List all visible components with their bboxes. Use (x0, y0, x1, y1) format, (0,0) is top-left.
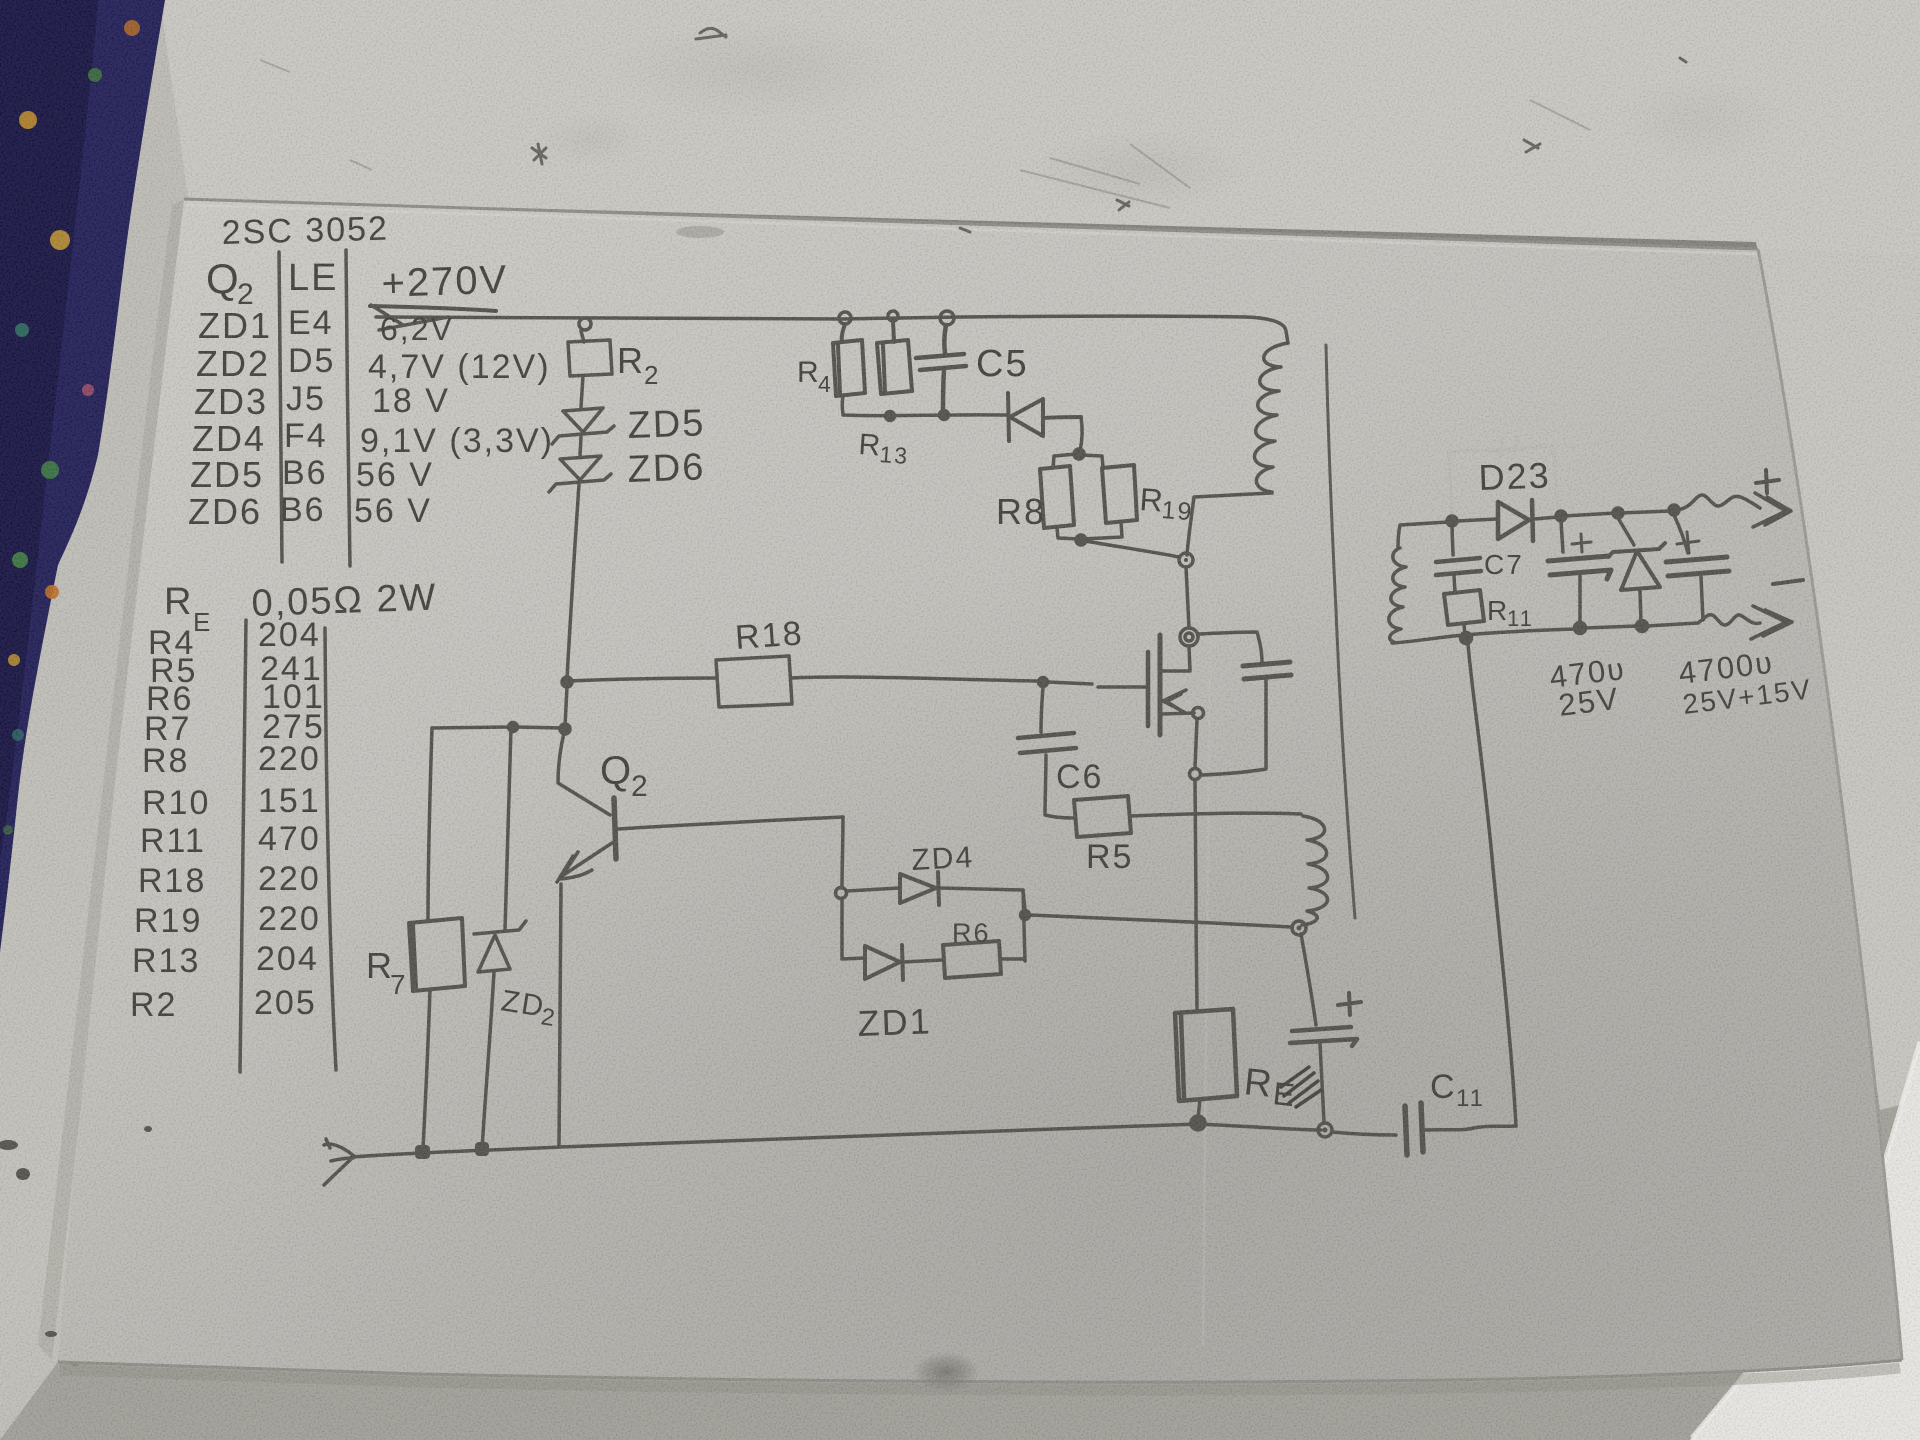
wire source node down to RE (1195, 780, 1197, 1012)
resistor R19 (1102, 465, 1137, 523)
capacitor C11 plates (1405, 1103, 1423, 1155)
resistor R4 (833, 324, 865, 396)
wire output plus squiggle (1677, 495, 1760, 510)
wire 470u cap lead (1561, 521, 1563, 552)
electrolytic capacitor plates (1290, 1027, 1357, 1046)
wire node A to R18 (567, 678, 716, 681)
output plus sign (1756, 470, 1779, 493)
wire to R7 branch corner (432, 727, 509, 728)
node output rail 2 (1613, 508, 1623, 518)
capacitor C5 (916, 325, 966, 412)
wire R19 bottom to node (1083, 522, 1122, 539)
wire Q2 collector from node B (558, 733, 610, 815)
wire snubber top (1198, 632, 1262, 662)
junction R13 bottom (886, 412, 895, 421)
wire right side of diode loop (1023, 890, 1025, 961)
transistor Q2 base bar (614, 798, 616, 859)
zener ZD5 (552, 408, 614, 456)
wire ZD2 top lead (505, 728, 511, 930)
MOSFET gate bar (1146, 652, 1151, 726)
wire C7 to R11 (1454, 576, 1455, 592)
zener ZD4 (900, 872, 939, 905)
wire R11 bottom lead (1464, 625, 1465, 634)
resistor RE (1175, 1009, 1237, 1101)
wire rail bend into primary winding (1246, 317, 1288, 343)
wire gate node to MOSFET gate (1047, 682, 1146, 687)
node top of R8 R19 (1074, 449, 1084, 459)
wire diode to R8 R19 top node (1080, 417, 1082, 451)
wire into R19 top (1081, 455, 1103, 467)
wire 470u cap bottom lead (1578, 576, 1582, 624)
wire to D23 anode (1457, 519, 1497, 521)
wire diode loop node to aux winding node (1030, 915, 1291, 927)
diode D (cathode left) (1008, 393, 1081, 441)
node on rail for R2 (579, 318, 591, 330)
wire node B left to ZD2 branch (515, 727, 565, 728)
table column bar right of LE (346, 250, 350, 566)
wire output rail segment 2 (1621, 511, 1671, 513)
wire down branch from ZD4 node (840, 898, 844, 957)
wire secondary bottom rail (1392, 629, 1576, 643)
node ZD4 branch (small circle) (836, 888, 847, 899)
wire R18 to gate node (791, 677, 1040, 681)
node gate junction (1039, 678, 1048, 687)
wire rail node to C11 (1332, 1132, 1396, 1135)
wire snubber bottom (1202, 680, 1266, 775)
output minus arrow head (1751, 606, 1792, 639)
resistor R18 (716, 656, 792, 707)
node diode loop junction (1021, 911, 1030, 920)
erased capacitor outline (faint) (1449, 437, 1558, 516)
input terminal arrow bottom left (324, 1139, 354, 1185)
resistor R7 (409, 918, 465, 991)
wire node to drain node (1085, 541, 1179, 557)
wire zener bottom lead (1640, 591, 1641, 622)
wire C6 lead from gate node (1041, 687, 1043, 732)
diode D23 (1498, 500, 1533, 541)
wire output minus squiggle (1698, 615, 1760, 625)
node on rail for R4 (839, 312, 851, 324)
node on rail for R13 (888, 311, 898, 321)
wire output rail segment (1564, 513, 1615, 516)
node bottom of R8 R19 (1076, 535, 1086, 545)
wire R8 bottom to node (1057, 528, 1079, 539)
wire RE bottom lead (1198, 1099, 1200, 1119)
junction RE to rail (1191, 1116, 1205, 1130)
wire ZD4 to right corner (939, 888, 1025, 910)
R list column bar right (325, 628, 336, 1070)
node MOSFET drain (big double circle) (1180, 628, 1198, 646)
resistor R2 (568, 331, 612, 407)
junction ZD2 to rail (475, 1142, 489, 1156)
wire bottom rail segment (1585, 626, 1637, 628)
diode ZD1 (865, 945, 903, 980)
wire Q2 base corner down to ZD4 node (842, 817, 843, 888)
capacitor 470u plates (1548, 556, 1611, 579)
wire R7 bottom lead (423, 989, 430, 1149)
junction C5 bottom (940, 411, 949, 420)
zener diode output (1608, 543, 1665, 590)
capacitor across MOSFET plates (1243, 662, 1291, 679)
node drain top (double circle) (1179, 553, 1193, 567)
capacitor 4700u plates (1666, 557, 1729, 576)
wire +270V top rail (371, 305, 1246, 325)
wire ZD6 to node A (567, 484, 579, 680)
zener diode output lead (1618, 518, 1634, 545)
table column bar between Q2 and LE (279, 252, 282, 562)
wire bottom rail (352, 1124, 1321, 1157)
wire bottom bus of R4 R13 C5 (843, 413, 1006, 417)
transformer core line (1326, 345, 1355, 918)
wire cap to rail node (1320, 1044, 1324, 1122)
470u cap plus sign (1572, 534, 1591, 552)
zener ZD6 (549, 456, 611, 492)
node ZD2 branch junction (509, 723, 518, 732)
node cap to rail (double circle) (1318, 1123, 1332, 1137)
resistor R11 (1444, 590, 1484, 625)
wire C6 to R5 (1045, 755, 1073, 818)
resistor R8 (1040, 466, 1074, 528)
resistor R6 (943, 941, 1001, 978)
node A junction (562, 677, 572, 687)
wire to ZD1 (842, 958, 864, 959)
wire node A down to node B (565, 687, 567, 726)
wire Q2 base to right (618, 817, 843, 829)
MOSFET channel bar (1158, 635, 1163, 735)
strike-through on 6,2V value (379, 317, 448, 330)
wire C7 lead from node (1452, 527, 1453, 555)
node source-cap junction (1190, 769, 1201, 780)
resistor R13 (877, 321, 912, 394)
wire Q2 emitter down to bottom rail (559, 884, 561, 1145)
wire aux node down to electrolytic cap (1301, 934, 1316, 1025)
wire R4 bottom lead (841, 396, 845, 414)
zener ZD2 (474, 921, 526, 972)
junction R11 to secondary bottom (1461, 633, 1472, 644)
wire 4700u bottom lead (1701, 577, 1703, 620)
output minus sign dash (1773, 580, 1803, 584)
node secondary top junction (1447, 516, 1457, 526)
resistor R5 (1074, 796, 1131, 837)
wire R6 to loop corner (1001, 957, 1024, 961)
MOSFET drain lead (1162, 646, 1190, 671)
primary winding of transformer (1254, 343, 1288, 492)
capacitor C6 plates (1018, 733, 1076, 753)
junction R7 to rail (415, 1145, 430, 1159)
transistor Q2 emitter with arrow (557, 843, 612, 882)
wire ZD1 to R6 (903, 960, 942, 962)
wire R5 to aux winding (1130, 813, 1301, 816)
wire C11 right to corner (1424, 1126, 1516, 1130)
output plus arrow head (1753, 493, 1791, 527)
aux winding of transformer (1302, 816, 1328, 925)
MOSFET body arrow (1163, 690, 1186, 713)
node output rail 1 (1556, 511, 1566, 521)
MOSFET source lead (1162, 713, 1194, 714)
R list column bar left (240, 620, 246, 1072)
wire source down (1195, 719, 1197, 768)
junction zener to bottom rail (1637, 621, 1648, 632)
electrolytic capacitor plus sign (1338, 993, 1361, 1015)
capacitor C7 plates (1436, 558, 1481, 575)
node on rail for C5 (940, 311, 954, 325)
node MOSFET source (1193, 708, 1204, 719)
wire D23 cathode to output node (1534, 517, 1558, 519)
wire to ZD4 (847, 888, 899, 891)
wire ZD2 bottom lead (482, 972, 494, 1150)
4700u cap plus sign (1677, 532, 1699, 553)
wire right vertical return to secondary ground (1468, 644, 1516, 1126)
secondary winding of transformer (1389, 548, 1406, 642)
junction 470u to bottom rail (1575, 623, 1586, 634)
wire primary bottom to drain node (1187, 493, 1272, 555)
wire into R8 top (1053, 454, 1077, 468)
wire R7 top lead (428, 728, 432, 921)
wire secondary top lead (1398, 522, 1448, 547)
node aux winding bottom (double circle) (1292, 921, 1306, 935)
wire 4700u cap lead (1674, 515, 1688, 553)
node B junction (560, 724, 570, 734)
underline of +270V (370, 306, 496, 311)
node output rail 3 (1669, 505, 1679, 515)
wire bottom rail segment 2 (1647, 623, 1698, 626)
wire drain node down to MOSFET drain (1186, 567, 1189, 628)
